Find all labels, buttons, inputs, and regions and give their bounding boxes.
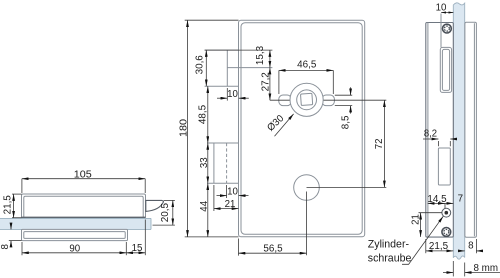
fixing plate inner bbox=[24, 232, 125, 239]
dim 8,2 right tail bbox=[450, 138, 456, 140]
dim 46,5 left ext bbox=[278, 70, 280, 94]
plan case bottom thick line bbox=[22, 217, 146, 219]
dim 10 edge line bbox=[441, 12, 453, 14]
follower inner circle bbox=[297, 90, 317, 110]
dim 180 extension bottom bbox=[185, 236, 239, 238]
cylinder slot bbox=[438, 148, 450, 185]
dim 8 mm right ext bbox=[464, 263, 466, 277]
dim 8 mm right tail bbox=[465, 272, 500, 274]
dim 30,6 line bbox=[205, 50, 207, 86]
dim 21,5 plan line bbox=[13, 194, 15, 218]
cylinder centre line vertical bbox=[306, 192, 308, 256]
dim 15,3 line bbox=[269, 50, 271, 68]
plan case inner bbox=[24, 196, 143, 218]
dim 15 right ext bbox=[144, 220, 146, 256]
lower notch bottom line bbox=[207, 182, 239, 184]
dim 90 right ext bbox=[125, 242, 127, 255]
svg-text:46,5: 46,5 bbox=[297, 60, 317, 71]
dim 72 line bbox=[383, 100, 385, 187]
latch wedge bbox=[146, 200, 164, 211]
svg-text:15,3: 15,3 bbox=[255, 45, 266, 65]
svg-text:105: 105 bbox=[74, 169, 93, 180]
dim 90 line bbox=[22, 252, 126, 254]
leader Zylinderschraube bbox=[402, 216, 443, 264]
lower notch top line bbox=[207, 142, 239, 144]
dim 8 mm left tail bbox=[443, 272, 453, 274]
lock case body outer outline bbox=[239, 20, 365, 237]
dim 21,5 plan bottom ext bbox=[12, 217, 22, 219]
svg-text:48,5: 48,5 bbox=[197, 104, 208, 124]
follower right ear bbox=[322, 95, 335, 106]
svg-text:21,5: 21,5 bbox=[3, 195, 14, 215]
svg-text:8: 8 bbox=[468, 241, 474, 252]
reference line 15,3/27,2 boundary bbox=[227, 67, 272, 69]
dim 8 edge right tail bbox=[476, 250, 482, 252]
svg-text:21,5: 21,5 bbox=[429, 241, 449, 252]
dim 8,5 top tail bbox=[350, 87, 352, 95]
follower centre line right bbox=[322, 99, 386, 101]
dim 20,5 line bbox=[172, 200, 174, 225]
dim 21 edge line bbox=[420, 213, 422, 237]
cover plate inner edge line bbox=[473, 23, 475, 236]
dim 21 edge ext bbox=[419, 212, 443, 214]
follower square spindle hole bbox=[301, 93, 313, 105]
case edge view body bbox=[426, 23, 454, 238]
cylinder centre line horizontal bbox=[307, 186, 387, 188]
svg-text:33: 33 bbox=[199, 157, 210, 168]
svg-text:8 mm: 8 mm bbox=[474, 263, 499, 274]
lower notch hidden edge (dashed) bbox=[226, 143, 228, 183]
svg-text:Zylinder-: Zylinder- bbox=[368, 239, 410, 251]
svg-text:21: 21 bbox=[225, 199, 236, 210]
dim lower 10 ext bbox=[226, 185, 228, 198]
dim 44 line bbox=[207, 183, 209, 237]
svg-text:21: 21 bbox=[410, 214, 421, 225]
dim 8,5 bottom tail bbox=[350, 106, 352, 114]
dim 14,5/7 mid arrow bbox=[439, 202, 445, 204]
dim upper 10 right tail bbox=[239, 97, 249, 99]
svg-text:10: 10 bbox=[436, 3, 447, 14]
dim 105 line bbox=[22, 178, 145, 180]
svg-text:56,5: 56,5 bbox=[263, 244, 283, 255]
svg-text:180: 180 bbox=[179, 118, 190, 137]
upper glass-cutout notch left edge bbox=[226, 50, 228, 86]
lower glass-cutout notch left edge bbox=[213, 143, 215, 183]
dim upper 10 ext bbox=[226, 88, 228, 101]
dim 8,5 bottom ext bbox=[335, 105, 352, 107]
svg-text:27,2: 27,2 bbox=[260, 72, 271, 91]
svg-text:20,5: 20,5 bbox=[160, 202, 171, 222]
upper notch top line bbox=[205, 49, 239, 51]
dim 105 right ext bbox=[144, 179, 146, 193]
cylinder screw head (dot) bbox=[442, 208, 451, 217]
dim 21 ext bbox=[213, 185, 215, 211]
glass band right edge bbox=[150, 218, 152, 229]
dim 8 plan bottom tail bbox=[10, 241, 12, 248]
dim 14,5 / 7 line bbox=[428, 202, 454, 204]
dim 180 line bbox=[187, 20, 189, 237]
dim 105 left ext bbox=[21, 179, 23, 193]
dim 8,5 top ext bbox=[335, 94, 352, 96]
dim 15 line bbox=[126, 252, 145, 254]
dim 56,5 left ext bbox=[238, 239, 240, 256]
dim 56,5 line bbox=[239, 252, 307, 254]
cylinder screw centre dot bbox=[445, 211, 449, 215]
plan case outer bbox=[22, 194, 146, 218]
dim 46,5 line bbox=[279, 69, 333, 71]
svg-text:8,2: 8,2 bbox=[424, 128, 437, 139]
svg-text:10: 10 bbox=[227, 89, 238, 100]
dim 8 edge right ext bbox=[475, 239, 477, 253]
dim 33 line bbox=[207, 143, 209, 183]
svg-text:14,5: 14,5 bbox=[427, 194, 447, 205]
dim 15,3 / 27,2 top extension bbox=[205, 49, 273, 51]
svg-text:8: 8 bbox=[0, 244, 11, 250]
dim 21,5 edge line bbox=[426, 250, 454, 252]
cover plate far side bbox=[465, 22, 477, 237]
glass pane vertical bbox=[453, 3, 464, 259]
svg-text:72: 72 bbox=[374, 139, 385, 150]
dim 14,5/7 mid ext bbox=[444, 203, 446, 208]
svg-text:30,6: 30,6 bbox=[194, 55, 205, 75]
dim lower 10 left tail bbox=[217, 195, 227, 197]
dim 8 plan top tail bbox=[10, 223, 12, 230]
top fixing screw (torx) bbox=[443, 24, 452, 33]
dim 8 plan bottom ext bbox=[9, 240, 22, 242]
fixing plate outer bbox=[22, 229, 128, 240]
svg-text:7: 7 bbox=[458, 193, 463, 204]
follower centre line left bbox=[270, 99, 291, 101]
dim 20,5 bottom ext bbox=[153, 224, 175, 226]
dim 48,5 line bbox=[207, 86, 209, 143]
lock case body inner outline bbox=[241, 23, 362, 235]
leader Ø30 line bbox=[275, 114, 294, 136]
svg-text:schraube: schraube bbox=[368, 253, 412, 265]
dim 90 left ext bbox=[21, 242, 23, 255]
follower big circle (Ø30) bbox=[290, 83, 323, 116]
dim 20,5 top ext bbox=[164, 199, 175, 201]
svg-text:10: 10 bbox=[227, 187, 238, 198]
svg-text:8,5: 8,5 bbox=[340, 115, 351, 129]
dim 27,2 line bbox=[269, 68, 271, 101]
dim 8,2 right ext bbox=[449, 141, 451, 146]
case edge inner line bbox=[427, 23, 429, 237]
glass band bottom edge bbox=[0, 228, 151, 230]
svg-text:44: 44 bbox=[199, 200, 210, 211]
follower left ear bbox=[279, 95, 292, 106]
glass pane band bbox=[0, 218, 151, 229]
dim 21,5 edge left ext bbox=[425, 239, 427, 253]
dim 46,5 right ext bbox=[332, 70, 334, 94]
bottom fixing screw (torx) bbox=[442, 228, 451, 237]
dim 21 line bbox=[214, 208, 239, 210]
dim 21,5 plan top ext bbox=[12, 193, 22, 195]
upper notch bottom line bbox=[205, 85, 239, 87]
screw channel line bbox=[440, 14, 442, 48]
strike slot inner bbox=[442, 49, 449, 90]
svg-text:90: 90 bbox=[69, 243, 80, 254]
dim 8 mm left ext bbox=[452, 261, 454, 276]
dim 180 extension top bbox=[185, 19, 239, 21]
dim 8,2 left ext bbox=[437, 141, 439, 146]
svg-text:15: 15 bbox=[132, 243, 143, 254]
dim upper 10 left tail bbox=[217, 97, 227, 99]
cylinder hole circle bbox=[294, 175, 320, 201]
dim lower 10 right tail bbox=[239, 195, 249, 197]
dim 8,2 left tail bbox=[423, 138, 438, 140]
glass band top edge bbox=[0, 217, 151, 219]
strike slot outer bbox=[440, 47, 451, 92]
dim 8 edge left tail bbox=[459, 250, 465, 252]
